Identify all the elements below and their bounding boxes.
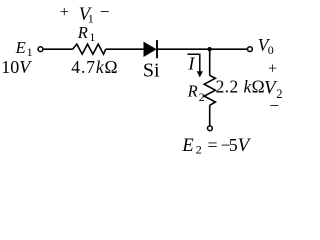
svg-text:1: 1 xyxy=(89,30,95,44)
wire from E1 terminal to R1 xyxy=(44,48,73,50)
svg-text:2: 2 xyxy=(196,143,202,157)
wire from diode to V0 terminal xyxy=(157,48,247,50)
svg-text:R: R xyxy=(187,82,198,101)
svg-text:I: I xyxy=(187,53,195,73)
wire from junction down to R2 xyxy=(209,49,211,75)
svg-text:4.7kΩ: 4.7kΩ xyxy=(71,57,118,77)
node V0 output terminal xyxy=(248,47,253,52)
current arrow I xyxy=(187,54,199,72)
svg-text:5: 5 xyxy=(229,135,238,155)
wire from R1 to diode xyxy=(106,48,145,50)
svg-text:R: R xyxy=(77,23,88,42)
resistor R1 xyxy=(73,44,106,54)
svg-text:−: − xyxy=(269,96,279,116)
wire from R2 down to E2 terminal xyxy=(209,105,211,126)
svg-text:+: + xyxy=(60,4,69,21)
svg-text:0: 0 xyxy=(268,43,274,57)
svg-text:E: E xyxy=(181,136,193,156)
resistor R2 xyxy=(204,75,215,105)
diode D1 anode triangle xyxy=(144,42,156,56)
node E2 terminal xyxy=(208,126,213,131)
svg-text:E: E xyxy=(15,38,26,57)
junction node dot xyxy=(207,47,211,51)
node E1 input terminal xyxy=(38,47,43,52)
svg-text:Si: Si xyxy=(143,60,160,82)
svg-text:V: V xyxy=(238,135,252,156)
svg-text:−: − xyxy=(100,2,110,22)
diode D1 cathode bar xyxy=(156,40,158,58)
svg-text:2: 2 xyxy=(199,90,205,104)
svg-text:1: 1 xyxy=(88,11,94,25)
svg-text:=: = xyxy=(208,135,218,155)
svg-text:2.2 kΩ: 2.2 kΩ xyxy=(216,77,265,97)
svg-text:10V: 10V xyxy=(1,57,32,77)
svg-text:+: + xyxy=(268,60,277,77)
